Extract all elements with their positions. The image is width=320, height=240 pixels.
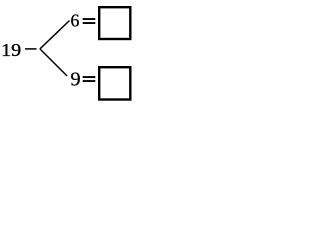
answer box (bottom): [99, 67, 130, 99]
wire: horizontal stub from 19: [25, 48, 37, 50]
equals sign (bottom), lower bar: [83, 80, 96, 82]
svg-text:9: 9: [70, 69, 80, 91]
svg-text:19: 19: [1, 41, 21, 60]
equals sign (top), lower bar: [83, 22, 96, 24]
answer box (top): [99, 7, 130, 39]
svg-text:6: 6: [71, 11, 80, 31]
equals sign (bottom), upper bar: [83, 76, 96, 78]
wire: lower branch line: [40, 49, 67, 76]
equals sign (top), upper bar: [83, 18, 96, 20]
wire: upper branch line: [40, 21, 70, 49]
